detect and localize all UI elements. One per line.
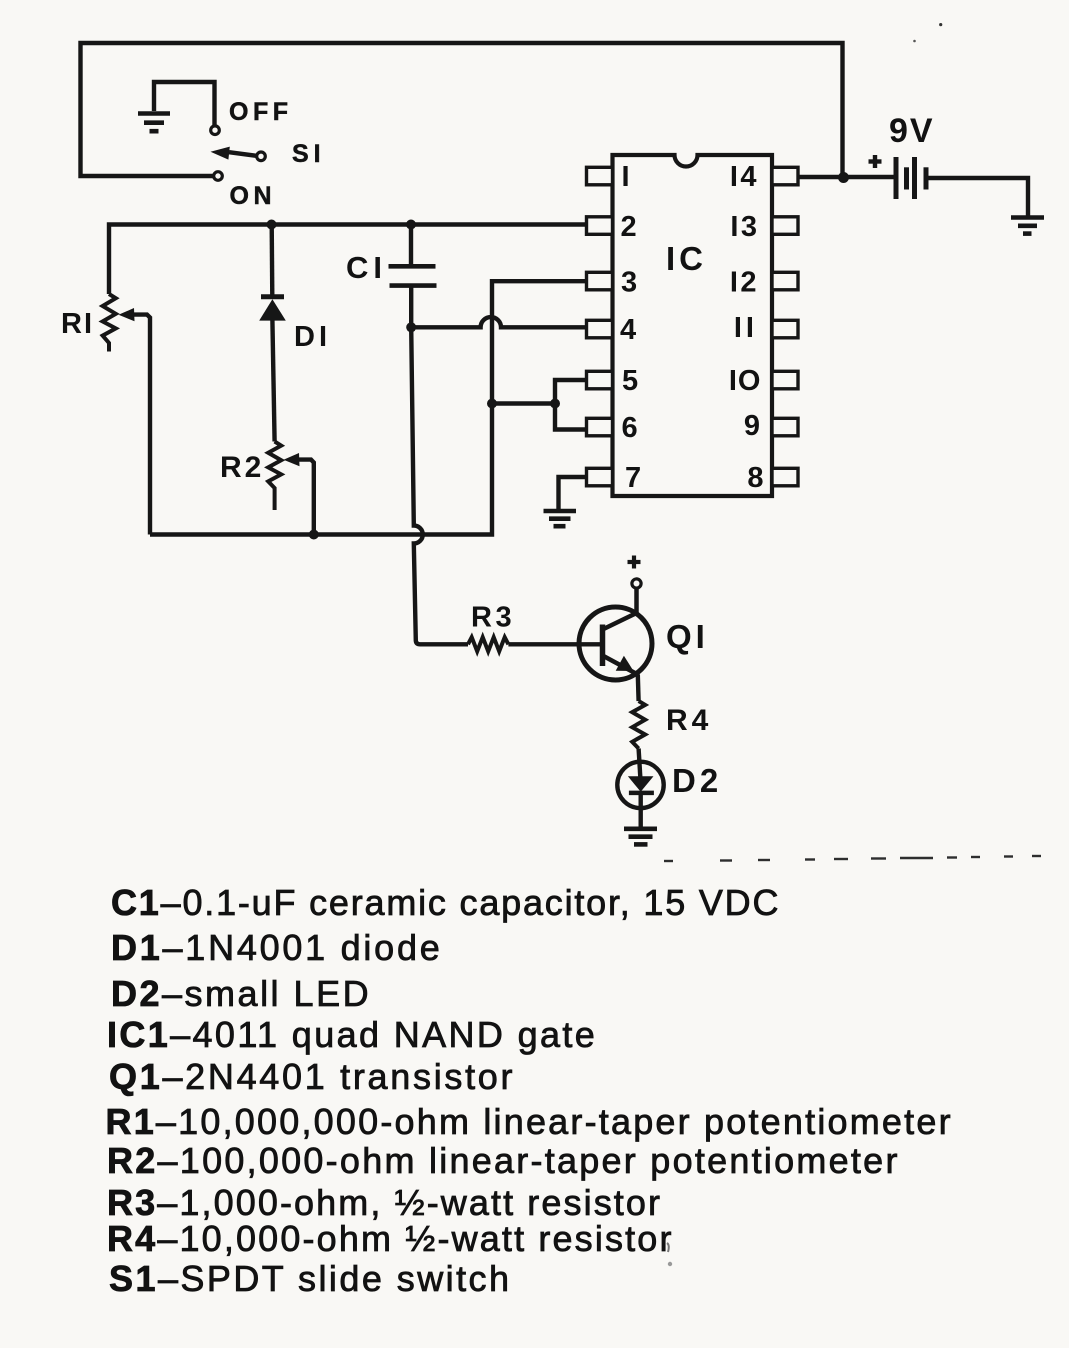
ground G4 (LED ground) [624, 829, 657, 845]
switch S1 lever pivot [257, 152, 266, 161]
IC pin 11 stub [772, 320, 798, 338]
IC pin 1 stub [587, 167, 613, 185]
svg-text:OFF: OFF [229, 98, 293, 126]
wire R4 to LED D2 [639, 749, 641, 778]
ground G3 (pin 7 ground) [544, 511, 577, 526]
switch S1 ON terminal [214, 172, 223, 181]
potentiometer R2 wiper arrow and wire down to rail [296, 460, 314, 535]
LED D2 circle [617, 762, 663, 808]
wire between net dots [492, 401, 555, 405]
svg-text:IC: IC [666, 240, 707, 277]
resistor R3 zigzag [468, 637, 508, 651]
IC pin 3 stub [587, 272, 613, 290]
IC pin 4 stub [587, 320, 613, 338]
diode D1 triangle [259, 299, 286, 320]
transistor Q1 emitter with arrow [603, 656, 638, 675]
IC pin 14 stub [772, 167, 798, 185]
wire pin 14 to battery [798, 175, 894, 179]
svg-text:CI: CI [346, 250, 387, 285]
wire battery negative to ground [926, 178, 1028, 217]
battery B1 plates [896, 157, 926, 199]
svg-text:C1–0.1-uF ceramic capacitor, 1: C1–0.1-uF ceramic capacitor, 15 VDC [111, 882, 780, 923]
wire bottom rail up to pin-3 riser [150, 281, 588, 534]
wire to pin 5 [555, 380, 588, 404]
svg-text:3: 3 [621, 267, 637, 299]
node junction dot top rail / pin 14 [838, 172, 849, 183]
svg-text:R2–100,000-ohm linear-taper po: R2–100,000-ohm linear-taper potentiomete… [107, 1140, 900, 1181]
transistor Q1 circle [579, 607, 652, 680]
svg-text:ON: ON [230, 182, 277, 210]
svg-text:IC1–4011 quad NAND gate: IC1–4011 quad NAND gate [107, 1014, 597, 1055]
capacitor C1 bottom lead [409, 286, 413, 328]
IC pin 2 stub [587, 217, 613, 235]
svg-text:RI: RI [61, 308, 94, 340]
svg-text:R4: R4 [666, 704, 712, 737]
svg-text:D1–1N4001 diode: D1–1N4001 diode [111, 927, 443, 968]
node junction dot pins 3/5/6 net left [487, 399, 497, 409]
transistor Q1 collector [603, 589, 637, 630]
switch S1 lever arm with arrowhead [229, 152, 257, 156]
switch S1 OFF terminal [211, 126, 220, 135]
capacitor C1 top lead [409, 225, 413, 269]
svg-text:SI: SI [292, 140, 326, 168]
svg-text:9V: 9V [889, 112, 935, 150]
wire Q1 emitter to R4 [636, 675, 641, 702]
LED D2 cathode bar [629, 791, 654, 796]
potentiometer R1 zigzag [103, 294, 116, 352]
svg-text:I2: I2 [730, 267, 759, 299]
IC pin 13 stub [772, 217, 798, 235]
svg-text:S1–SPDT slide switch: S1–SPDT slide switch [109, 1258, 511, 1299]
svg-text:6: 6 [622, 412, 638, 444]
svg-text:2: 2 [621, 211, 637, 243]
wire D2 to ground [639, 793, 643, 828]
potentiometer R2 zigzag [268, 442, 281, 511]
node junction dot at C1 bottom / pin 4 net [406, 322, 416, 332]
svg-text:IO: IO [729, 365, 762, 397]
IC pin 9 stub [772, 418, 798, 436]
scan artifact dashes [664, 856, 1041, 861]
IC pin 10 stub [772, 371, 798, 389]
node junction dot at D1 branch [267, 220, 277, 230]
diode D1 wire from rail [270, 225, 275, 298]
svg-text:9: 9 [744, 410, 760, 442]
svg-text:I: I [622, 161, 630, 193]
wire top rail: ON terminal around left/top border to battery drop [81, 43, 843, 176]
diode D1 cathode bar [261, 294, 284, 299]
svg-text:II: II [734, 312, 758, 344]
svg-text:R4–10,000-ohm ½-watt resistor: R4–10,000-ohm ½-watt resistor [107, 1218, 674, 1259]
IC pin 12 stub [772, 272, 798, 290]
ground G1 (switch OFF ground) [138, 114, 170, 132]
scan specks [939, 23, 942, 26]
node junction dot R2 wiper to bottom rail [309, 530, 319, 540]
svg-text:R3: R3 [471, 602, 515, 634]
svg-text:QI: QI [666, 618, 709, 655]
IC U1 body with notch [613, 155, 773, 496]
LED D2 triangle [628, 776, 654, 792]
svg-text:I4: I4 [730, 161, 759, 193]
IC pin 6 stub [587, 418, 613, 436]
wire pin 7 to ground [559, 477, 589, 509]
ground G2 (battery ground) [1011, 218, 1044, 234]
parts list [106, 882, 953, 1299]
node junction dot pins 5/6 [550, 399, 560, 409]
wire R3 to Q1 base [508, 642, 600, 646]
IC pin 5 stub [587, 371, 613, 389]
svg-text:Q1–2N4401 transistor: Q1–2N4401 transistor [109, 1056, 515, 1097]
node junction dot at C1 top [406, 220, 416, 230]
svg-text:DI: DI [294, 321, 331, 353]
capacitor C1 plates [389, 264, 436, 269]
collector terminal circle [632, 579, 641, 588]
wire OFF branch to ground [154, 82, 215, 126]
svg-text:7: 7 [625, 462, 641, 494]
svg-text:D2: D2 [672, 762, 722, 799]
svg-text:5: 5 [622, 365, 638, 397]
potentiometer R1 wiper arrow and wire down [130, 315, 150, 535]
wire D1 to R2 [272, 320, 274, 442]
svg-text:R1–10,000,000-ohm linear-taper: R1–10,000,000-ohm linear-taper potentiom… [106, 1101, 953, 1142]
transistor Q1 base bar [600, 625, 606, 667]
wire timing node down from C1 bottom, hop over bottom rail, to R3 [411, 327, 468, 644]
svg-text:R2: R2 [220, 451, 264, 484]
plus sign above Q1 collector [628, 560, 641, 564]
svg-text:8: 8 [747, 462, 763, 494]
wire pin 4 net with hop over pin-3 riser [411, 317, 588, 327]
IC pin 7 stub [587, 468, 613, 486]
plus sign at battery [869, 159, 882, 163]
IC pin 8 stub [772, 468, 798, 486]
svg-text:4: 4 [620, 314, 636, 346]
wire to pin 6 [555, 404, 588, 430]
svg-text:R3–1,000-ohm, ½-watt resistor: R3–1,000-ohm, ½-watt resistor [107, 1182, 662, 1223]
svg-text:D2–small LED: D2–small LED [111, 973, 371, 1014]
wire V+ rail to IC pin 2 [109, 225, 588, 295]
resistor R4 zigzag [632, 701, 645, 749]
svg-text:I3: I3 [730, 211, 759, 243]
